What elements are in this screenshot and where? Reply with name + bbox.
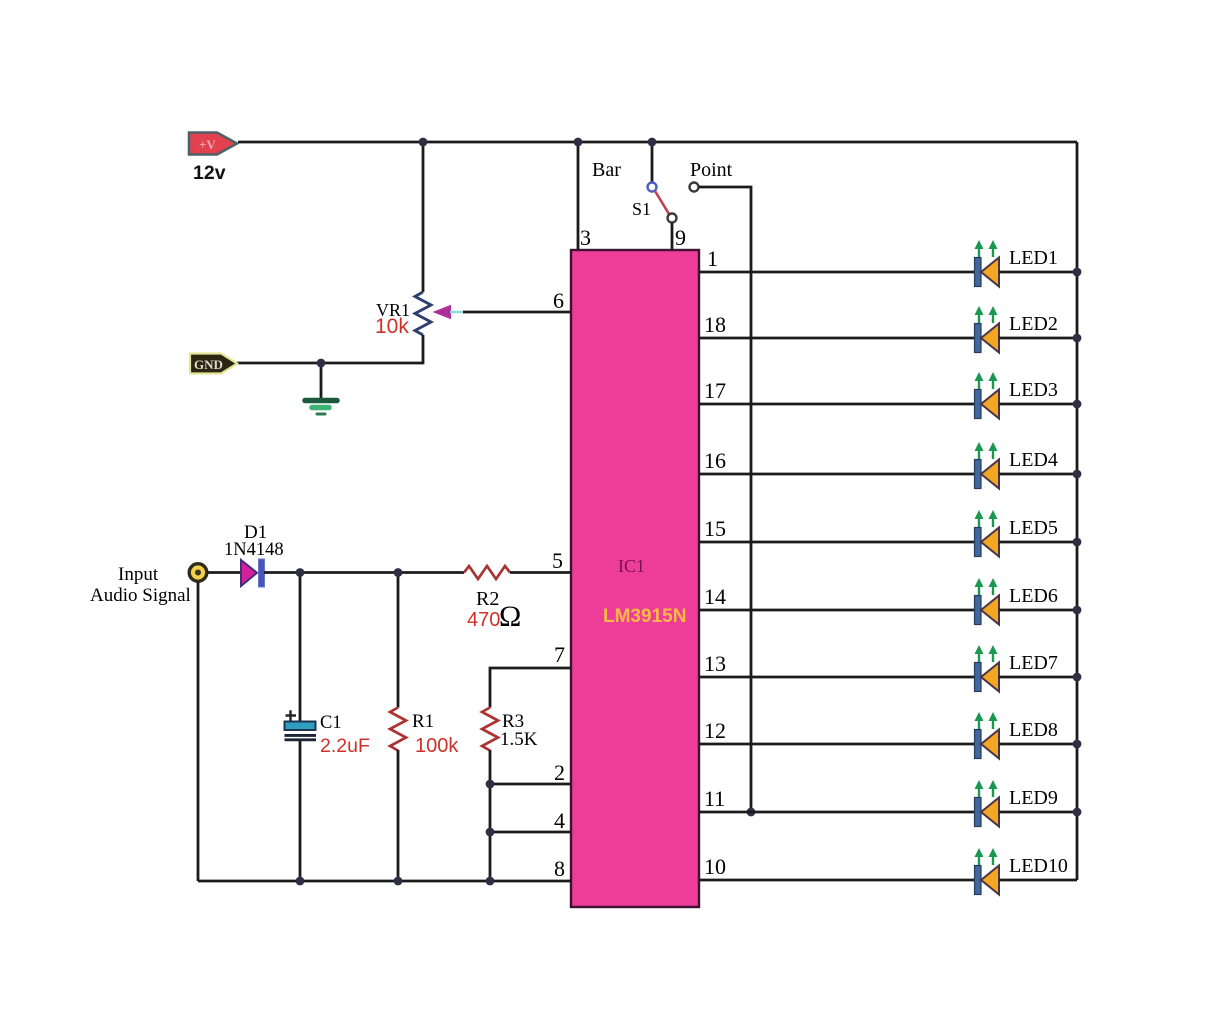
junction top rail / pin 3 branch [574, 138, 583, 147]
junction bus / LED8 wire [1073, 740, 1082, 749]
wire D1 cathode to R2 [264, 571, 464, 574]
junction bus / LED2 wire [1073, 334, 1082, 343]
wire R2 to pin 5 [510, 571, 571, 574]
svg-text:IC1: IC1 [618, 556, 645, 576]
input jack J1 [189, 564, 207, 582]
wire top rail to pin 3 [577, 142, 580, 250]
svg-text:LED10: LED10 [1009, 855, 1068, 877]
wire jack down leg [197, 582, 200, 881]
junction bus / LED9 wire [1073, 808, 1082, 817]
junction bottom rail / R3 branch [486, 877, 495, 886]
svg-text:10: 10 [704, 854, 726, 879]
junction top rail / VR1 branch [419, 138, 428, 147]
svg-text:2.2uF: 2.2uF [320, 735, 370, 757]
wire LED8 anode to bus [999, 743, 1077, 746]
svg-text:GND: GND [194, 357, 223, 372]
switch S1 [648, 183, 677, 223]
svg-text:LED4: LED4 [1009, 449, 1058, 471]
wire pin 17 to LED3 cathode [699, 403, 974, 406]
svg-text:LED6: LED6 [1009, 585, 1058, 607]
IC U1 LM3915N body [571, 250, 699, 907]
wire signal node to C1 plus [299, 572, 302, 722]
wire R1 bottom to bottom rail [397, 750, 400, 881]
junction R3 branch / pin 2 wire [486, 780, 495, 789]
wire pin 18 to LED2 cathode [699, 337, 974, 340]
LED LED10 [975, 848, 1000, 895]
svg-text:18: 18 [704, 312, 726, 337]
label Input Audio Signal [90, 564, 191, 606]
wire LED3 anode to bus [999, 403, 1077, 406]
wire pin 10 to LED10 cathode [699, 879, 974, 882]
wire signal node to R1 top [397, 572, 400, 708]
svg-text:LED5: LED5 [1009, 517, 1058, 539]
power flag +V [189, 133, 237, 155]
wire pin 2 to R3 branch [490, 783, 571, 786]
LED LED4 [975, 442, 1000, 489]
junction Point wire / pin 11 wire [747, 808, 756, 817]
svg-text:17: 17 [704, 378, 726, 403]
svg-text:11: 11 [704, 786, 725, 811]
wire ground stub [320, 363, 323, 398]
wire LED9 anode to bus [999, 811, 1077, 814]
junction bus / LED5 wire [1073, 538, 1082, 547]
svg-text:LED3: LED3 [1009, 379, 1058, 401]
wire pin 16 to LED4 cathode [699, 473, 974, 476]
LED LED1 [975, 240, 1000, 287]
junction bottom rail / C1 branch [296, 877, 305, 886]
svg-text:LM3915N: LM3915N [603, 606, 686, 627]
svg-text:470: 470 [467, 609, 500, 631]
power flag GND [190, 354, 237, 374]
svg-text:+V: +V [199, 137, 216, 152]
wire pin 1 to LED1 cathode [699, 271, 974, 274]
junction bus / LED3 wire [1073, 400, 1082, 409]
resistor R3 [482, 708, 498, 751]
svg-text:LED1: LED1 [1009, 247, 1058, 269]
svg-text:Ω: Ω [499, 600, 521, 633]
svg-text:3: 3 [580, 225, 591, 250]
wire VR1 bottom to GND rail [237, 335, 423, 363]
svg-text:6: 6 [553, 288, 564, 313]
junction bus / LED6 wire [1073, 606, 1082, 615]
wire pin 13 to LED7 cathode [699, 676, 974, 679]
svg-text:12v: 12v [193, 162, 226, 184]
LED LED6 [975, 578, 1000, 625]
svg-text:LED9: LED9 [1009, 787, 1058, 809]
diode D1 [241, 559, 265, 587]
svg-text:14: 14 [704, 584, 726, 609]
wire C1 minus to bottom rail [299, 741, 302, 881]
svg-text:7: 7 [554, 642, 565, 667]
svg-text:Audio Signal: Audio Signal [90, 585, 191, 606]
svg-text:Input: Input [118, 564, 159, 585]
svg-text:LED7: LED7 [1009, 652, 1058, 674]
wire VR1 wiper to pin 6 [463, 311, 571, 314]
LED LED8 [975, 712, 1000, 759]
svg-text:Point: Point [690, 159, 733, 181]
svg-text:13: 13 [704, 651, 726, 676]
svg-text:8: 8 [554, 856, 565, 881]
wire pin 14 to LED6 cathode [699, 609, 974, 612]
LED LED7 [975, 645, 1000, 692]
wire pin 11 to LED9 cathode [699, 811, 974, 814]
junction signal node / R1 branch [394, 568, 403, 577]
resistor R1 [390, 708, 406, 751]
wire LED4 anode to bus [999, 473, 1077, 476]
junction top rail / S1 branch [648, 138, 657, 147]
LED LED9 [975, 780, 1000, 827]
svg-text:1N4148: 1N4148 [224, 540, 284, 560]
svg-text:10k: 10k [375, 315, 409, 338]
svg-text:S1: S1 [632, 199, 651, 219]
resistor R2 [464, 566, 510, 579]
wire pin 12 to LED8 cathode [699, 743, 974, 746]
svg-text:C1: C1 [320, 713, 342, 733]
junction R3 branch / pin 4 wire [486, 828, 495, 837]
LED LED3 [975, 372, 1000, 419]
wire LED5 anode to bus [999, 541, 1077, 544]
node Point terminal [690, 183, 699, 192]
junction bus / LED7 wire [1073, 673, 1082, 682]
wire LED1 anode to bus [999, 271, 1077, 274]
junction bus / LED1 wire [1073, 268, 1082, 277]
capacitor C1 [285, 710, 317, 740]
wire jack to D1 anode [207, 571, 241, 574]
wire bottom rail to pin 8 [198, 880, 571, 883]
svg-text:1: 1 [707, 246, 718, 271]
wire top rail to S1 pole [651, 142, 654, 182]
svg-text:R2: R2 [476, 588, 499, 610]
wire LED10 anode to bus [999, 879, 1077, 882]
LED LED5 [975, 510, 1000, 557]
wire LED6 anode to bus [999, 609, 1077, 612]
wire pin 7 to R3 top [490, 668, 571, 708]
svg-text:2: 2 [554, 760, 565, 785]
junction bus / LED4 wire [1073, 470, 1082, 479]
svg-text:R1: R1 [412, 711, 434, 732]
wire Point terminal to pin 11 [699, 187, 751, 812]
svg-text:4: 4 [554, 808, 565, 833]
wire S1 throw to pin 9 [671, 223, 674, 250]
junction GND rail / ground stub [317, 359, 326, 368]
wire R3 bottom to bottom rail [489, 750, 492, 881]
svg-text:9: 9 [675, 225, 686, 250]
wire pin 15 to LED5 cathode [699, 541, 974, 544]
svg-text:15: 15 [704, 516, 726, 541]
svg-text:LED2: LED2 [1009, 313, 1058, 335]
wire top rail to VR1 top [422, 142, 425, 292]
wire LED2 anode to bus [999, 337, 1077, 340]
svg-text:100k: 100k [415, 735, 459, 757]
potentiometer VR1 [415, 292, 463, 335]
junction bottom rail / R1 branch [394, 877, 403, 886]
svg-text:Bar: Bar [592, 159, 621, 181]
wire right anode bus [1076, 142, 1079, 880]
svg-text:LED8: LED8 [1009, 719, 1058, 741]
wire LED7 anode to bus [999, 676, 1077, 679]
svg-text:16: 16 [704, 448, 726, 473]
LED LED2 [975, 306, 1000, 353]
svg-text:5: 5 [552, 548, 563, 573]
junction signal node / C1 branch [296, 568, 305, 577]
value label 470 ohm [467, 600, 521, 633]
svg-text:1.5K: 1.5K [500, 729, 538, 750]
ground [305, 401, 337, 415]
wire pin 4 to R3 branch [490, 831, 571, 834]
svg-text:12: 12 [704, 718, 726, 743]
wire +V top rail [238, 141, 1077, 144]
